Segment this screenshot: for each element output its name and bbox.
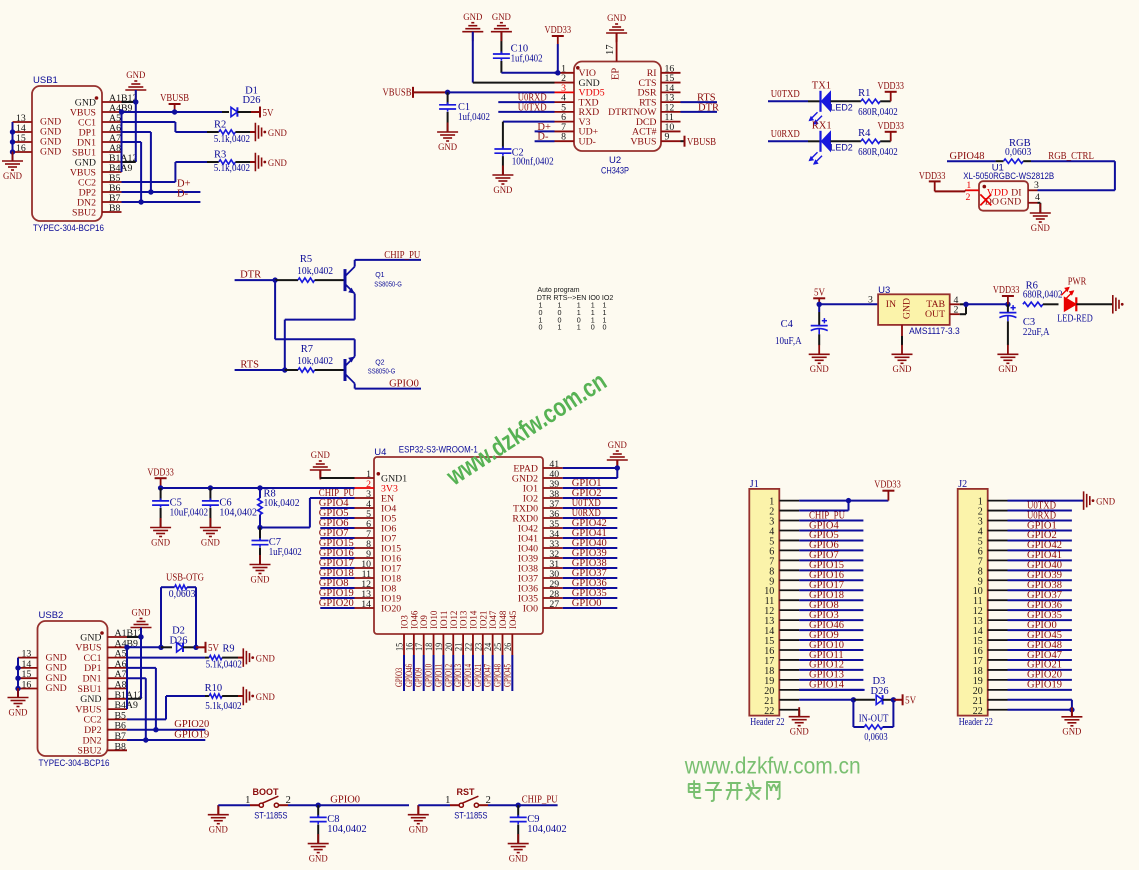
wire DTR from U2 [681, 102, 720, 113]
ground U2 EP pin [606, 13, 627, 42]
svg-text:Q2: Q2 [375, 360, 384, 367]
svg-text:1: 1 [577, 323, 581, 332]
capacitor C10 1uf [493, 32, 558, 73]
switch RST ST-1185S [418, 787, 558, 821]
wire USB2 DP net GPIO20 [127, 668, 205, 733]
svg-text:DTR: DTR [698, 102, 719, 113]
wire J2 pin1 to GND [1008, 500, 1084, 502]
resistor R9 5.1k [127, 643, 243, 670]
connector USB1 TYPEC-304-BCP16 [13, 75, 138, 234]
svg-text:SBU2: SBU2 [72, 207, 96, 218]
svg-text:GND: GND [893, 364, 912, 375]
ground at C6 [200, 518, 221, 548]
svg-text:VBUSB: VBUSB [383, 87, 412, 98]
diode D3 D26 [799, 676, 902, 705]
ground at R3 [255, 153, 287, 172]
connector USB2 TYPEC-304-BCP16 [18, 610, 143, 769]
svg-text:GPIO45: GPIO45 [502, 664, 513, 687]
svg-text:22: 22 [764, 706, 774, 717]
svg-text:5.1k,0402: 5.1k,0402 [205, 701, 241, 712]
svg-text:EP: EP [611, 68, 622, 80]
svg-text:GND: GND [492, 12, 511, 23]
svg-text:GND: GND [607, 13, 626, 24]
svg-text:GND: GND [311, 450, 330, 461]
capacitor C4 10uF polarized [775, 304, 828, 347]
power port 5V at D2 [206, 642, 220, 654]
power port VDD33 at R4 [877, 121, 904, 142]
svg-text:XL-5050RGBC-WS2812B: XL-5050RGBC-WS2812B [963, 171, 1054, 181]
svg-text:GPIO0: GPIO0 [572, 598, 602, 609]
svg-text:TYPEC-304-BCP16: TYPEC-304-BCP16 [39, 758, 110, 769]
ground at C4 [809, 345, 830, 375]
svg-text:1: 1 [558, 323, 562, 332]
capacitor C7 1uF [252, 528, 302, 565]
svg-text:Header 22: Header 22 [750, 717, 784, 728]
svg-text:R5: R5 [300, 254, 312, 265]
svg-text:GND: GND [998, 364, 1017, 375]
svg-text:GND: GND [493, 185, 512, 196]
svg-text:10k,0402: 10k,0402 [297, 266, 333, 277]
wire Q1 collector to CHIP_PU [355, 260, 421, 267]
svg-text:Q1: Q1 [375, 272, 384, 279]
wire DN1-DN2 net D- [122, 142, 201, 205]
svg-text:R10: R10 [205, 683, 223, 694]
svg-text:0: 0 [591, 323, 595, 332]
svg-text:GND: GND [1062, 727, 1081, 738]
power port VDD33 at R1 [877, 81, 904, 102]
ground U4 GND1 [310, 450, 355, 479]
svg-text:U2: U2 [609, 155, 621, 166]
svg-text:4: 4 [1035, 192, 1040, 203]
svg-text:1: 1 [966, 180, 971, 191]
ground USB1 GND pins [122, 70, 147, 162]
wire U3 OUT join [960, 302, 1011, 315]
svg-text:3: 3 [868, 295, 873, 306]
svg-text:GND: GND [9, 707, 28, 718]
svg-text:GND: GND [268, 158, 287, 169]
svg-text:D-: D- [537, 132, 549, 143]
resistor R1 680R [831, 88, 898, 118]
capacitor C2 100nf on V3 [494, 122, 554, 175]
no-connect X on U1 pin2 [980, 194, 991, 205]
svg-text:AMS1117-3.3: AMS1117-3.3 [909, 326, 960, 337]
resistor R6 680R [1023, 281, 1063, 307]
svg-text:IO20: IO20 [381, 603, 401, 614]
svg-text:0,0603: 0,0603 [864, 732, 887, 743]
svg-text:R4: R4 [858, 128, 871, 139]
ground at J2 pin1 [1084, 491, 1116, 510]
svg-text:R7: R7 [301, 344, 313, 355]
svg-text:27: 27 [549, 599, 559, 610]
wires U4 bottom GPIO nets [394, 655, 513, 691]
svg-text:GPIO19: GPIO19 [1027, 680, 1062, 691]
svg-text:LED2: LED2 [830, 142, 852, 152]
svg-text:16: 16 [16, 143, 26, 154]
wire D- to UD- [535, 132, 555, 143]
svg-text:GND: GND [126, 70, 145, 81]
resistor R2 5.1k [122, 120, 256, 146]
diode D1 D26 [175, 86, 261, 117]
svg-text:22: 22 [973, 706, 983, 717]
svg-text:GND: GND [256, 692, 275, 703]
resistor RGB 0603 [947, 138, 1115, 164]
svg-text:GND: GND [3, 171, 22, 182]
svg-text:1uF,0402: 1uF,0402 [269, 547, 302, 558]
svg-text:USB2: USB2 [39, 610, 64, 621]
svg-text:CHIP_PU: CHIP_PU [522, 795, 558, 806]
power rail VDD33 to U4 3V3 [147, 467, 354, 490]
svg-text:5V: 5V [814, 287, 825, 298]
svg-text:TYPEC-304-BCP16: TYPEC-304-BCP16 [33, 223, 104, 234]
svg-text:CHIP_PU: CHIP_PU [384, 250, 420, 261]
ground at PWR LED [1113, 295, 1124, 314]
svg-text:PWR: PWR [1068, 276, 1087, 287]
wire Q1 emitter to RTS [285, 294, 355, 370]
svg-text:D26: D26 [871, 686, 889, 697]
svg-text:ST-1185S: ST-1185S [254, 810, 287, 820]
svg-text:VBUSB: VBUSB [687, 137, 716, 148]
svg-text:VBUS: VBUS [630, 136, 656, 147]
module U4 ESP32-S3-WROOM-1 [355, 445, 563, 656]
resistor USB-OTG 0603 bridge [127, 573, 204, 651]
svg-text:R9: R9 [223, 643, 235, 654]
net label DTR [235, 270, 278, 283]
svg-text:0,0603: 0,0603 [169, 589, 196, 600]
wire Q2 collector to GPIO0 [355, 384, 421, 389]
ground U4 EPAD GND2 [563, 440, 628, 478]
ground U1 pin4 [1030, 203, 1051, 234]
svg-text:17: 17 [605, 45, 616, 56]
power port VDD33 at J1 [874, 480, 901, 501]
ground at BOOT switch [208, 805, 229, 835]
svg-text:SBU2: SBU2 [78, 746, 102, 757]
wire U0RXD to U2 TXD [498, 93, 554, 104]
svg-text:GND: GND [509, 853, 528, 864]
svg-text:5V: 5V [208, 643, 219, 654]
watermark Chinese characters dian zi kai fa wang [689, 781, 780, 801]
svg-text:J1: J1 [750, 479, 759, 490]
wire R8 to EN CHIP_PU [260, 498, 355, 528]
svg-text:GND: GND [409, 825, 428, 836]
IC U2 CH343P [555, 42, 681, 177]
svg-text:2: 2 [966, 192, 971, 203]
svg-text:100nf,0402: 100nf,0402 [512, 156, 554, 167]
wires J1 GPIO nets [799, 510, 865, 690]
LED RX1 LED2 [768, 120, 853, 165]
svg-text:GND: GND [438, 142, 457, 153]
svg-text:680R,0402: 680R,0402 [1023, 290, 1063, 301]
ground at C5 [150, 518, 171, 548]
svg-text:VDD33: VDD33 [874, 480, 901, 491]
svg-text:GND: GND [810, 364, 829, 375]
power port 5V at U3 [813, 287, 878, 307]
transistor Q1 SS8050-G [345, 267, 402, 294]
svg-text:U0TXD: U0TXD [518, 102, 547, 113]
wires J2 GPIO nets [1008, 500, 1072, 690]
svg-text:GND: GND [268, 128, 287, 139]
svg-text:GPIO0: GPIO0 [330, 795, 360, 806]
svg-text:D-: D- [177, 189, 189, 200]
svg-text:8: 8 [561, 132, 566, 143]
wire RTS from U2 [681, 93, 718, 104]
ground at R2 [255, 123, 287, 142]
svg-text:www.dzkfw.com.cn: www.dzkfw.com.cn [684, 753, 861, 779]
ground J1 pin22 [789, 707, 810, 737]
wire RGB_CTRL to U1 DI [1038, 161, 1115, 190]
svg-text:IN: IN [886, 299, 896, 310]
svg-text:680R,0402: 680R,0402 [858, 147, 898, 158]
regulator U3 AMS1117-3.3 [878, 285, 960, 337]
power port VBUSB at U2 pin3 [383, 87, 555, 99]
ground USB1 shield GND [2, 152, 23, 182]
ground USB2 GND pins [127, 608, 152, 699]
ground at C7 [250, 555, 271, 585]
svg-text:GND: GND [132, 608, 151, 619]
svg-text:D26: D26 [242, 95, 260, 106]
wire DP1-DP2 net D+ [122, 132, 201, 195]
ground at R9 [243, 648, 274, 667]
svg-text:B8: B8 [109, 203, 121, 214]
power port 5V at J1 [903, 694, 917, 706]
resistor R4 680R [831, 128, 898, 158]
svg-text:1: 1 [245, 795, 250, 806]
svg-text:680R,0402: 680R,0402 [858, 107, 898, 118]
svg-text:GND: GND [463, 12, 482, 23]
ground at C1 [437, 123, 458, 153]
svg-text:RX1: RX1 [812, 120, 832, 131]
svg-text:Header 22: Header 22 [959, 717, 993, 728]
svg-text:10uF,0402: 10uF,0402 [170, 508, 209, 519]
resistor R10 5.1k [127, 683, 243, 719]
svg-text:VDD33: VDD33 [993, 285, 1020, 296]
power port 5V at D1 [260, 107, 274, 119]
svg-text:SS8050-G: SS8050-G [368, 369, 396, 376]
wire VBUS rows join [119, 109, 124, 172]
LED PWR LED-RED [1057, 276, 1113, 324]
svg-text:VDD33: VDD33 [545, 25, 572, 36]
table Auto program truth table [537, 285, 614, 332]
svg-text:5V: 5V [263, 108, 274, 119]
ground at C2 [492, 166, 513, 196]
svg-text:5V: 5V [905, 696, 916, 707]
svg-text:U0RXD: U0RXD [771, 129, 800, 140]
svg-text:GND: GND [1096, 496, 1115, 507]
wires U4 right GPIO nets [563, 478, 618, 609]
svg-text:GND: GND [201, 537, 220, 548]
svg-text:GND: GND [902, 298, 913, 319]
svg-text:1uf,0402: 1uf,0402 [458, 112, 490, 123]
capacitor C3 22uF polarized [999, 304, 1049, 345]
svg-text:GND: GND [40, 147, 61, 158]
svg-text:D26: D26 [169, 636, 187, 647]
svg-text:5.1k,0402: 5.1k,0402 [206, 659, 242, 670]
IC U1 XL-5050RGBC-WS2812B [963, 162, 1054, 210]
ground at C8 [308, 834, 329, 864]
svg-text:VDD33: VDD33 [877, 121, 904, 132]
wire U0TXD to U2 RXD [498, 102, 554, 113]
svg-text:9: 9 [665, 132, 670, 143]
wire USB2 DN net GPIO19 [127, 678, 205, 743]
svg-text:0,0603: 0,0603 [1005, 147, 1031, 158]
svg-text:0: 0 [603, 323, 607, 332]
svg-text:IO45: IO45 [508, 611, 519, 629]
svg-text:USB1: USB1 [33, 75, 58, 86]
resistor IN-OUT 0603 bridge [853, 700, 893, 743]
resistor R7 10k [285, 344, 344, 372]
svg-text:3: 3 [1034, 180, 1039, 191]
net label RTS [235, 360, 288, 373]
wire USB2 shield to ground [15, 658, 20, 698]
svg-text:VDD33: VDD33 [877, 81, 904, 92]
svg-text:R2: R2 [214, 120, 226, 131]
svg-text:LED-RED: LED-RED [1057, 314, 1093, 325]
svg-text:BOOT: BOOT [253, 787, 280, 797]
connector J1 Header 22 [749, 479, 799, 728]
wire USB1 shield to ground [10, 122, 15, 161]
svg-text:U3: U3 [878, 285, 890, 296]
ground U2 GND pin2 [462, 12, 554, 83]
svg-text:UD-: UD- [579, 136, 596, 147]
svg-text:U0TXD: U0TXD [771, 89, 800, 100]
svg-text:RGB_CTRL: RGB_CTRL [1048, 151, 1094, 162]
svg-text:5.1k,0402: 5.1k,0402 [214, 163, 250, 174]
svg-text:104,0402: 104,0402 [219, 508, 257, 519]
svg-text:IN-OUT: IN-OUT [859, 714, 889, 725]
capacitor C6 104 [202, 488, 257, 528]
svg-text:26: 26 [503, 643, 514, 651]
svg-text:ST-1185S: ST-1185S [454, 810, 487, 820]
ground at C3 [997, 345, 1018, 375]
ground U3 GND pin [892, 336, 913, 375]
diode D2 D26 [161, 626, 205, 653]
svg-text:1: 1 [445, 795, 450, 806]
ground at C10 [491, 12, 512, 41]
svg-text:10k,0402: 10k,0402 [264, 498, 300, 509]
svg-text:B8: B8 [115, 741, 127, 752]
power port VBUSB at U2 pin9 [681, 136, 717, 148]
svg-text:DTR: DTR [240, 270, 261, 281]
capacitor C9 104 [510, 805, 567, 843]
LED TX1 LED2 [768, 80, 853, 125]
svg-text:GPIO19: GPIO19 [174, 730, 209, 741]
svg-text:RST: RST [457, 787, 476, 797]
ground at C9 [508, 834, 529, 864]
connector J2 Header 22 [958, 479, 1008, 728]
svg-text:16: 16 [22, 680, 32, 691]
svg-text:LED2: LED2 [830, 102, 852, 112]
svg-text:5.1k,0402: 5.1k,0402 [214, 134, 250, 145]
svg-text:104,0402: 104,0402 [327, 824, 366, 835]
power port VDD33 at U2 [545, 25, 572, 76]
transistor Q2 SS8050-G [345, 357, 395, 384]
capacitor C8 104 [310, 805, 367, 843]
svg-text:TX1: TX1 [812, 80, 831, 91]
svg-text:GND: GND [608, 440, 627, 451]
wires U4 left GPIO nets [319, 498, 355, 609]
svg-text:IO0: IO0 [523, 603, 538, 614]
svg-text:U4: U4 [374, 447, 386, 458]
svg-text:J2: J2 [958, 479, 967, 490]
power port VDD33 at U1 [919, 171, 965, 191]
svg-text:VBUSB: VBUSB [160, 93, 189, 104]
svg-text:GND: GND [1000, 197, 1021, 208]
svg-text:10uF,A: 10uF,A [775, 336, 802, 347]
svg-text:CH343P: CH343P [601, 166, 629, 177]
switch BOOT ST-1185S [218, 787, 409, 821]
capacitor C5 10uF [152, 488, 208, 528]
resistor R3 5.1k [122, 150, 256, 183]
svg-text:VDD33: VDD33 [147, 467, 174, 478]
svg-text:GND: GND [251, 574, 270, 585]
svg-text:GPIO0: GPIO0 [389, 379, 419, 390]
svg-text:GND: GND [151, 537, 170, 548]
svg-text:GND: GND [209, 825, 228, 836]
svg-text:GND: GND [1031, 223, 1050, 234]
wire D+ to UD+ [535, 122, 555, 133]
svg-text:GND: GND [309, 853, 328, 864]
svg-text:GND: GND [256, 653, 275, 664]
svg-text:0: 0 [539, 323, 543, 332]
ground USB2 shield GND [8, 688, 29, 718]
svg-text:22uF,A: 22uF,A [1023, 327, 1050, 338]
wires J1 pins 1-2 to VDD33 [799, 498, 888, 511]
svg-text:R1: R1 [858, 88, 870, 99]
svg-text:OUT: OUT [925, 309, 945, 320]
capacitor C1 1uf [439, 92, 490, 132]
wire USB2 VBUS rows join [124, 645, 129, 710]
svg-text:USB-OTG: USB-OTG [166, 573, 204, 584]
svg-text:C4: C4 [781, 319, 794, 330]
ground at RST switch [408, 805, 429, 835]
power port VDD33 at U3 out [993, 285, 1020, 304]
svg-text:2: 2 [954, 305, 959, 316]
svg-text:10k,0402: 10k,0402 [297, 356, 333, 367]
svg-text:GPIO20: GPIO20 [319, 598, 354, 609]
svg-text:R3: R3 [214, 150, 226, 161]
wire DTR to Q2 emitter [275, 280, 355, 356]
svg-text:GND: GND [790, 727, 809, 738]
svg-text:SS8050-G: SS8050-G [374, 282, 402, 289]
power port VBUSB at USB1 [122, 93, 190, 115]
svg-text:104,0402: 104,0402 [527, 824, 566, 835]
resistor R5 10k [275, 254, 344, 282]
svg-text:1uf,0402: 1uf,0402 [511, 54, 543, 65]
svg-text:14: 14 [361, 599, 371, 610]
resistor R8 10k pullup [257, 488, 299, 530]
svg-text:RTS: RTS [240, 360, 259, 371]
svg-text:GND: GND [46, 683, 67, 694]
ground at R10 [243, 687, 274, 706]
ground J2 pins 21-22 [1008, 700, 1083, 738]
